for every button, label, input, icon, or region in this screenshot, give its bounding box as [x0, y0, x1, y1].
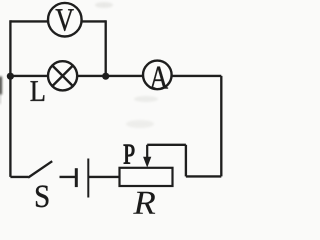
battery short plate (negative)	[75, 168, 78, 187]
wire battery to rheostat	[88, 176, 119, 178]
wire main horizontal row	[10, 75, 221, 77]
battery long plate (positive)	[87, 159, 89, 198]
ammeter A circle	[143, 61, 172, 90]
wire step vertical	[185, 145, 187, 177]
lamp L cross	[52, 66, 72, 86]
wire bottom right horizontal	[186, 175, 221, 177]
ammeter A label	[150, 67, 168, 89]
wire top branch	[10, 20, 105, 22]
lamp L circle	[48, 61, 77, 90]
slider P arrow stem	[146, 145, 148, 159]
voltmeter V label	[56, 9, 74, 31]
wire step horizontal to slider	[147, 144, 186, 146]
wire voltmeter drop to node B	[105, 20, 107, 76]
wire switch to battery	[60, 176, 77, 178]
slider P arrowhead	[143, 157, 151, 168]
node right junction	[102, 73, 109, 80]
label R	[133, 192, 155, 214]
rheostat R body	[120, 168, 173, 186]
label L	[31, 81, 45, 101]
wire left vertical	[9, 20, 11, 177]
switch S blade	[28, 161, 52, 177]
voltmeter U-V circle	[48, 3, 82, 37]
wire right vertical	[220, 76, 222, 176]
wire bottom left to switch	[10, 176, 28, 178]
edge scan artifact	[0, 77, 2, 95]
node left junction	[7, 73, 14, 80]
label S	[36, 186, 48, 208]
label P	[124, 145, 134, 164]
